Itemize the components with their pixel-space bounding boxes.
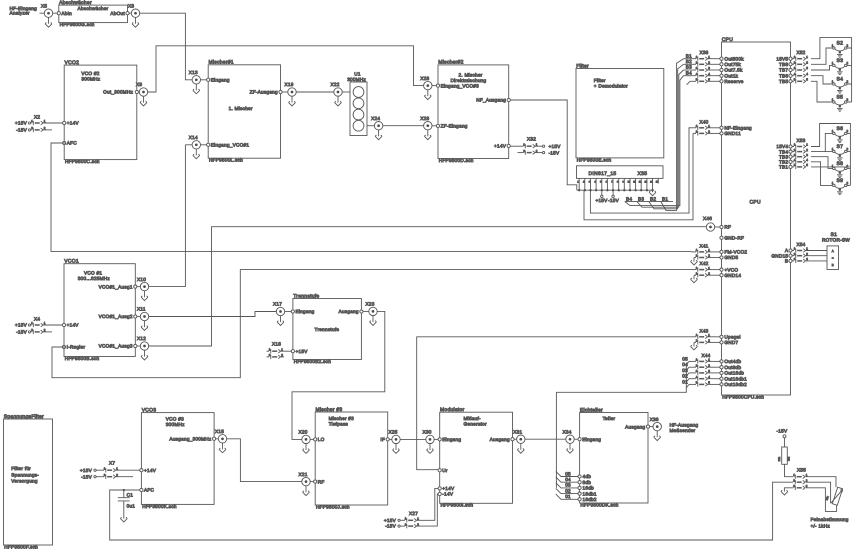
switch S7 (832, 144, 849, 161)
svg-text:+15V: +15V (595, 198, 608, 203)
wire from label to X5 (40, 12, 45, 14)
net +VCO: CPU X42 to VCO1 I-Regler (52, 270, 691, 378)
connector X11 (137, 307, 149, 321)
ground below X23 (370, 316, 377, 326)
switch S2 (832, 40, 849, 57)
svg-text:01: 01 (682, 379, 688, 384)
svg-text:04: 04 (565, 477, 571, 482)
ground below X25 (393, 444, 400, 454)
svg-text:X28: X28 (420, 76, 429, 81)
svg-text:+14V: +14V (67, 121, 80, 126)
svg-text:1: 1 (806, 55, 808, 59)
svg-text:Mitlauf-: Mitlauf- (464, 416, 482, 421)
switch S3 (832, 58, 849, 75)
label HF-Eingang Analyzer (10, 6, 38, 16)
connector X41 (691, 244, 748, 266)
svg-text:HFP9500K.sch: HFP9500K.sch (142, 504, 177, 509)
wire X21 to RF (310, 481, 313, 483)
svg-text:S6: S6 (836, 126, 843, 132)
ground below X21 (303, 486, 310, 496)
svg-text:4db: 4db (583, 474, 592, 479)
svg-text:VCO#1_Ausg3: VCO#1_Ausg3 (99, 344, 133, 349)
svg-text:-15V: -15V (608, 198, 620, 203)
wire Ausg2 pin to X11 (137, 316, 140, 318)
svg-text:16db1: 16db1 (583, 491, 597, 496)
svg-text:04: 04 (682, 362, 688, 367)
svg-text:B: B (832, 263, 834, 267)
svg-text:Ausgang: Ausgang (490, 437, 510, 442)
ground below X5 (45, 17, 52, 27)
svg-text:X17: X17 (273, 302, 282, 307)
connector X23 (366, 302, 378, 316)
svg-text:X32: X32 (527, 137, 536, 142)
wire Ausg3 pin to X12 (137, 345, 140, 347)
ground below X30 (427, 444, 434, 454)
svg-text:B4: B4 (686, 70, 692, 75)
svg-text:Modulator: Modulator (440, 407, 465, 413)
wire X15 to Mischer#3 RF via X21 (227, 439, 302, 482)
block Filter + Demodulator (576, 63, 664, 162)
svg-text:SpannungsFilter: SpannungsFilter (4, 414, 44, 420)
svg-text:Mischer#2: Mischer#2 (438, 60, 463, 66)
block Abschwaecher (attenuator) (57, 0, 129, 27)
wire X20 to LO (310, 438, 313, 440)
svg-text:VCO#1_Ausg2: VCO#1_Ausg2 (99, 314, 133, 319)
svg-text:CPU: CPU (750, 200, 762, 206)
ground below X17 (277, 316, 284, 326)
connector X18 (267, 341, 292, 359)
svg-text:Ausgang: Ausgang (339, 309, 359, 314)
connector X32 (510, 137, 561, 156)
svg-text:X46: X46 (703, 216, 712, 221)
svg-text:Analyzer: Analyzer (10, 11, 30, 16)
svg-text:X19: X19 (285, 82, 294, 87)
svg-text:X29: X29 (420, 116, 429, 121)
svg-text:HFP9500CPU.sch: HFP9500CPU.sch (722, 394, 764, 399)
svg-text:X34: X34 (563, 429, 572, 434)
wire ZF-Ausgang to X19 (282, 91, 288, 93)
svg-text:HFP9500G.sch: HFP9500G.sch (60, 22, 95, 27)
svg-text:+15V: +15V (384, 518, 397, 523)
bus X44 to Eichteiler (556, 365, 686, 488)
switch S4 (832, 76, 849, 93)
connector X4 (15, 317, 62, 335)
svg-text:Trennstufe: Trennstufe (315, 327, 340, 332)
svg-text:-14V: -14V (442, 492, 454, 497)
ground below X11 (141, 321, 148, 331)
connector X36 (650, 417, 662, 431)
svg-text:X2: X2 (34, 115, 40, 120)
svg-text:Out_300MHz: Out_300MHz (103, 90, 134, 95)
svg-text:-15V: -15V (16, 128, 28, 133)
supply -15V terminal (777, 429, 789, 438)
svg-text:300...625MHz: 300...625MHz (78, 276, 111, 281)
svg-text:B2: B2 (686, 59, 692, 64)
svg-text:03: 03 (682, 368, 688, 373)
connector X9 (136, 82, 148, 96)
svg-text:03: 03 (565, 483, 571, 488)
ground below X9 (140, 96, 147, 106)
svg-text:TB7: TB7 (779, 68, 788, 73)
connector X31 (513, 429, 525, 443)
svg-text:Abschwächer: Abschwächer (78, 6, 109, 11)
wire 15V4 rail to S6..S9 (811, 124, 850, 186)
svg-text:Filter: Filter (576, 63, 589, 69)
svg-text:Eingang: Eingang (296, 309, 315, 314)
wire TB8 to S2 (811, 48, 833, 64)
svg-text:X14: X14 (189, 135, 198, 140)
svg-text:Out7.5k: Out7.5k (724, 68, 743, 73)
block VCO2 (VCO #2 300MHz) (63, 60, 139, 164)
svg-text:AFC: AFC (144, 488, 154, 493)
svg-text:AbOut: AbOut (110, 11, 125, 16)
svg-text:8db: 8db (583, 480, 592, 485)
svg-text:TB6: TB6 (779, 73, 788, 78)
switch S9 (832, 178, 849, 195)
svg-text:Out1k: Out1k (724, 73, 738, 78)
svg-text:ZF-Eingang: ZF-Eingang (441, 124, 468, 129)
svg-text:X12: X12 (137, 336, 146, 341)
svg-text:X5: X5 (41, 3, 47, 8)
svg-text:Out16db: Out16db (724, 371, 744, 376)
switch S1 ROTOR-SW (822, 232, 850, 269)
wire X28 to Eingang_VCO#3 (432, 85, 436, 87)
svg-text:B2: B2 (650, 196, 656, 201)
svg-text:HFP9500I.sch: HFP9500I.sch (441, 503, 474, 508)
svg-text:IF: IF (380, 437, 385, 442)
Eichteiler attenuation inputs 4db..16db2 (556, 471, 597, 502)
svg-text:S7: S7 (836, 144, 843, 150)
ground below X29 (424, 130, 431, 140)
X35 +15V supply stub (595, 190, 608, 203)
svg-text:X11: X11 (137, 307, 146, 312)
svg-text:HF-Ausgang: HF-Ausgang (670, 422, 699, 427)
svg-text:-15V: -15V (81, 475, 93, 480)
wire X29 to ZF-Eingang (432, 125, 436, 127)
svg-text:I-Regler: I-Regler (67, 345, 86, 350)
connector X54 (771, 242, 827, 263)
svg-text:HFP9500L.sch: HFP9500L.sch (209, 158, 243, 163)
ground below X14 (193, 149, 200, 159)
svg-text:10k: 10k (825, 495, 829, 500)
connector X10 (137, 277, 149, 291)
label HF-Ausgang Messsender (670, 422, 699, 433)
svg-text:2: 2 (806, 61, 808, 65)
connector X39 (684, 50, 745, 85)
block Modulator (Mitlauf-Generator) (438, 407, 514, 508)
connector X29 (420, 116, 432, 130)
svg-text:HFP9500J.sch: HFP9500J.sch (316, 504, 350, 509)
capacitor C1 0u1 (118, 489, 136, 522)
X35 bus with junction dots (577, 189, 654, 191)
svg-text:X9: X9 (136, 82, 142, 87)
wire TB5 to S5 (811, 81, 833, 102)
svg-text:Out16db2: Out16db2 (724, 382, 747, 387)
X35 pin stubs with numbers (577, 178, 659, 190)
svg-text:300MHz: 300MHz (347, 77, 366, 82)
svg-text:GND-RF: GND-RF (724, 236, 744, 241)
svg-text:2. Mischer: 2. Mischer (459, 73, 483, 78)
svg-text:2: 2 (847, 129, 849, 133)
svg-text:Reserve: Reserve (724, 79, 743, 84)
svg-text:VCO3: VCO3 (142, 407, 157, 413)
svg-text:300MHz: 300MHz (166, 422, 185, 427)
svg-text:Versorgung: Versorgung (11, 479, 38, 484)
net AFC: VCO3 AFC along bottom to X55 (110, 482, 793, 540)
block VCO1 (VCO #1 300..625MHz) (62, 259, 136, 361)
svg-text:Eingang_VCO#1: Eingang_VCO#1 (211, 143, 250, 148)
svg-text:+15V: +15V (549, 144, 562, 149)
ground below X36 (654, 431, 661, 441)
svg-text:TB8: TB8 (779, 62, 788, 67)
svg-text:HFP9500C.sch: HFP9500C.sch (65, 159, 100, 164)
svg-text:ROTOR-SW: ROTOR-SW (822, 237, 850, 242)
svg-text:Eingang: Eingang (582, 437, 601, 442)
wire TB2 to S9 (811, 162, 833, 186)
ground below X19 (289, 96, 296, 106)
connector X25 (389, 430, 401, 444)
svg-text:+15V: +15V (15, 121, 28, 126)
svg-text:02: 02 (682, 374, 688, 379)
svg-text:+14V: +14V (442, 486, 455, 491)
svg-text:VCO1: VCO1 (64, 259, 79, 265)
svg-text:X13: X13 (189, 70, 198, 75)
switch S8 (832, 161, 849, 178)
block Mischer#3 (mixer, lowpass) (314, 407, 390, 510)
CPU pin RF (715, 225, 731, 230)
connector X22 (331, 82, 343, 96)
wire X31 to X34 (525, 438, 566, 440)
ground below X24 (375, 130, 382, 140)
net B1 from X35 to CPU (661, 59, 684, 211)
block Mischer#2 (2nd mixer, direct mix) (436, 60, 510, 163)
svg-text:AFC: AFC (67, 141, 77, 146)
switch S5 (832, 94, 849, 111)
svg-text:X8: X8 (128, 3, 134, 8)
svg-text:-15V: -15V (777, 429, 789, 434)
svg-text:4: 4 (806, 72, 808, 76)
svg-text:B3: B3 (686, 65, 692, 70)
svg-text:X10: X10 (137, 277, 146, 282)
svg-text:Eingang: Eingang (442, 437, 461, 442)
svg-text:-15V: -15V (385, 524, 397, 529)
svg-text:S8: S8 (836, 161, 843, 167)
wire X5 to AbIn (53, 12, 58, 14)
wire Ausgang to X23 (363, 310, 369, 312)
connector X40 (689, 120, 752, 137)
connector X44 (682, 353, 747, 388)
svg-text:05: 05 (682, 356, 688, 361)
net B2 from X35 to CPU (649, 64, 684, 209)
svg-text:C1: C1 (127, 492, 134, 497)
svg-text:X53: X53 (796, 138, 805, 143)
svg-text:01: 01 (565, 494, 571, 499)
wire U1 to X24 (367, 125, 374, 127)
ground below X34 (567, 443, 574, 453)
connector X42 (691, 261, 742, 283)
connector X35 DIN617_15 (577, 166, 664, 179)
connector X14 (189, 135, 201, 149)
svg-text:GND5: GND5 (724, 255, 738, 260)
svg-text:Generator: Generator (464, 422, 488, 427)
svg-text:5: 5 (806, 163, 808, 167)
svg-text:X15: X15 (215, 429, 224, 434)
svg-text:2: 2 (806, 148, 808, 152)
net B4 from X35 to CPU (625, 76, 684, 206)
connector X30 (423, 430, 435, 444)
wire X27 pin2 to -14V (417, 494, 438, 526)
svg-text:10k: 10k (787, 456, 790, 461)
svg-text:3: 3 (806, 66, 808, 70)
svg-text:S9: S9 (836, 178, 843, 184)
svg-text:16db2: 16db2 (583, 497, 597, 502)
svg-text:HFP9500E.sch: HFP9500E.sch (577, 157, 612, 162)
svg-text:Ausgang: Ausgang (625, 424, 645, 429)
connector X52 (776, 50, 808, 84)
block VCO3 (VCO #3 300MHz) (140, 407, 216, 508)
svg-text:GND7: GND7 (724, 340, 738, 345)
svg-text:X25: X25 (389, 430, 398, 435)
svg-text:300MHz: 300MHz (81, 77, 100, 82)
svg-text:B: B (785, 259, 788, 264)
svg-text:NF_Ausgang: NF_Ausgang (476, 98, 506, 103)
wire X30 to Modulator Eingang (434, 438, 438, 440)
wire X34 to Eichteiler Eingang (574, 438, 578, 440)
connector X43 (691, 328, 741, 350)
svg-text:Upegel: Upegel (724, 335, 740, 340)
wire X24 to X29 (383, 125, 424, 127)
wire TB7 to S3 (811, 65, 833, 70)
svg-text:16db: 16db (583, 486, 595, 491)
svg-text:B1: B1 (686, 53, 692, 58)
svg-text:S5: S5 (836, 94, 843, 100)
connector X53 (776, 138, 808, 169)
svg-text:2: 2 (847, 181, 849, 185)
svg-text:Eingang_VCO#3: Eingang_VCO#3 (441, 83, 480, 88)
wire X27 pin1 to +14V (417, 488, 438, 520)
X35 -15V supply stub (608, 190, 620, 203)
svg-text:Eingang: Eingang (211, 78, 230, 83)
svg-text:X30: X30 (423, 430, 432, 435)
svg-text:Feinabstimmung: Feinabstimmung (811, 517, 849, 522)
svg-text:Direktmischung: Direktmischung (451, 78, 487, 83)
svg-text:X22: X22 (331, 82, 340, 87)
filter U1 300MHz (347, 72, 367, 136)
wire X17 to Eingang (285, 311, 292, 313)
svg-text:+14V: +14V (494, 144, 507, 149)
svg-text:A: A (832, 249, 834, 253)
svg-text:05: 05 (565, 471, 571, 476)
block Trennstufe (buffer stage) (291, 293, 363, 364)
wire X14 to Eingang_VCO#1 (201, 144, 207, 146)
net GND11 from X35 to CPU X40 (584, 133, 693, 219)
svg-text:R51: R51 (778, 456, 781, 461)
svg-text:Out75k: Out75k (724, 62, 741, 67)
ground below X31 (517, 443, 524, 453)
svg-text:3: 3 (806, 153, 808, 157)
svg-text:HFP9500B.sch: HFP9500B.sch (65, 356, 100, 361)
svg-text:X7: X7 (109, 460, 115, 465)
svg-text:X35: X35 (638, 171, 648, 177)
svg-text:=: = (832, 256, 834, 260)
svg-text:S4: S4 (836, 76, 843, 82)
svg-text:X18: X18 (272, 341, 281, 346)
wire X55 pin3 to ground (781, 488, 794, 495)
ground on X35 bus (649, 190, 656, 196)
wire 15V5 rail to S2..S5 (811, 38, 852, 102)
svg-text:RF: RF (318, 479, 325, 484)
svg-text:+14V: +14V (67, 323, 80, 328)
ground below X13 (193, 84, 200, 94)
svg-text:Mischer#1: Mischer#1 (209, 60, 234, 66)
svg-text:X21: X21 (299, 472, 308, 477)
svg-text:1: 1 (806, 143, 808, 147)
svg-text:Out4db: Out4db (724, 359, 741, 364)
svg-text:X36: X36 (650, 417, 659, 422)
wire TB3 to S8 (811, 157, 833, 169)
ground below X22 (335, 96, 342, 106)
svg-text:Meßsender: Meßsender (670, 428, 696, 433)
svg-text:+15V: +15V (80, 468, 93, 473)
svg-text:1. Mischer: 1. Mischer (229, 106, 253, 111)
svg-text:VCO2: VCO2 (65, 60, 80, 66)
svg-text:GND11: GND11 (724, 131, 741, 136)
wire TB1 to rail (811, 166, 850, 168)
connector X55 (793, 468, 807, 491)
connector X21 (299, 472, 311, 486)
svg-text:Out16db1: Out16db1 (724, 376, 747, 381)
svg-text:NF-Eingang: NF-Eingang (724, 126, 752, 131)
ground below X12 (141, 350, 148, 360)
block CPU (722, 37, 791, 400)
svg-text:Trennstufe: Trennstufe (293, 293, 319, 299)
svg-text:LO: LO (318, 437, 325, 442)
net NF-Eingang from X35 to CPU X40 (590, 128, 690, 213)
svg-text:HFP9500DK.sch: HFP9500DK.sch (580, 502, 618, 507)
svg-text:VCO#1_Ausg1: VCO#1_Ausg1 (99, 284, 133, 289)
svg-text:FM-VCO2: FM-VCO2 (724, 250, 747, 255)
net B3 from X35 to CPU (637, 70, 684, 207)
svg-text:X20: X20 (299, 430, 308, 435)
ground below X10 (141, 291, 148, 301)
wire Ausgang to X31 (514, 438, 517, 440)
connector X24 (371, 116, 383, 130)
label Feinabstimmung +/- 1kHz (811, 517, 849, 529)
ground below X20 (303, 444, 310, 454)
svg-text:X4: X4 (34, 317, 40, 322)
switch S6 (832, 126, 849, 143)
connector X2 (15, 115, 63, 133)
svg-text:Ausgang_300MHz: Ausgang_300MHz (169, 437, 211, 442)
svg-text:S3: S3 (836, 58, 843, 64)
svg-text:VCO #1: VCO #1 (84, 271, 102, 276)
svg-text:+15V: +15V (15, 323, 28, 328)
svg-text:Spannungs-: Spannungs- (11, 472, 39, 477)
wire Ausgang_300MHz to X15 (216, 438, 219, 440)
wire TB4 to S7 and S6 (811, 133, 833, 151)
svg-text:CPU: CPU (722, 37, 733, 43)
svg-text:X31: X31 (513, 429, 522, 434)
connector X34 (563, 429, 575, 443)
svg-text:X52: X52 (796, 50, 805, 55)
connector X8 (128, 3, 140, 17)
svg-text:+14V: +14V (144, 468, 157, 473)
svg-text:02: 02 (565, 488, 571, 493)
connector X46 (703, 216, 715, 231)
svg-text:+ Demodulator: + Demodulator (594, 84, 628, 89)
potentiometer 10k (825, 487, 842, 505)
svg-text:Out500k: Out500k (724, 56, 744, 61)
